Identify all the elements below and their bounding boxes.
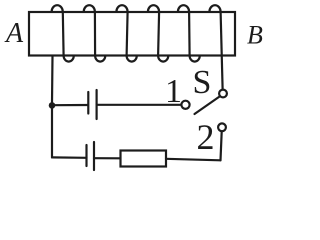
svg-text:S: S	[193, 64, 212, 101]
svg-text:B: B	[247, 21, 263, 50]
svg-text:A: A	[4, 18, 24, 49]
svg-text:2: 2	[197, 117, 215, 157]
svg-text:1: 1	[165, 73, 182, 110]
